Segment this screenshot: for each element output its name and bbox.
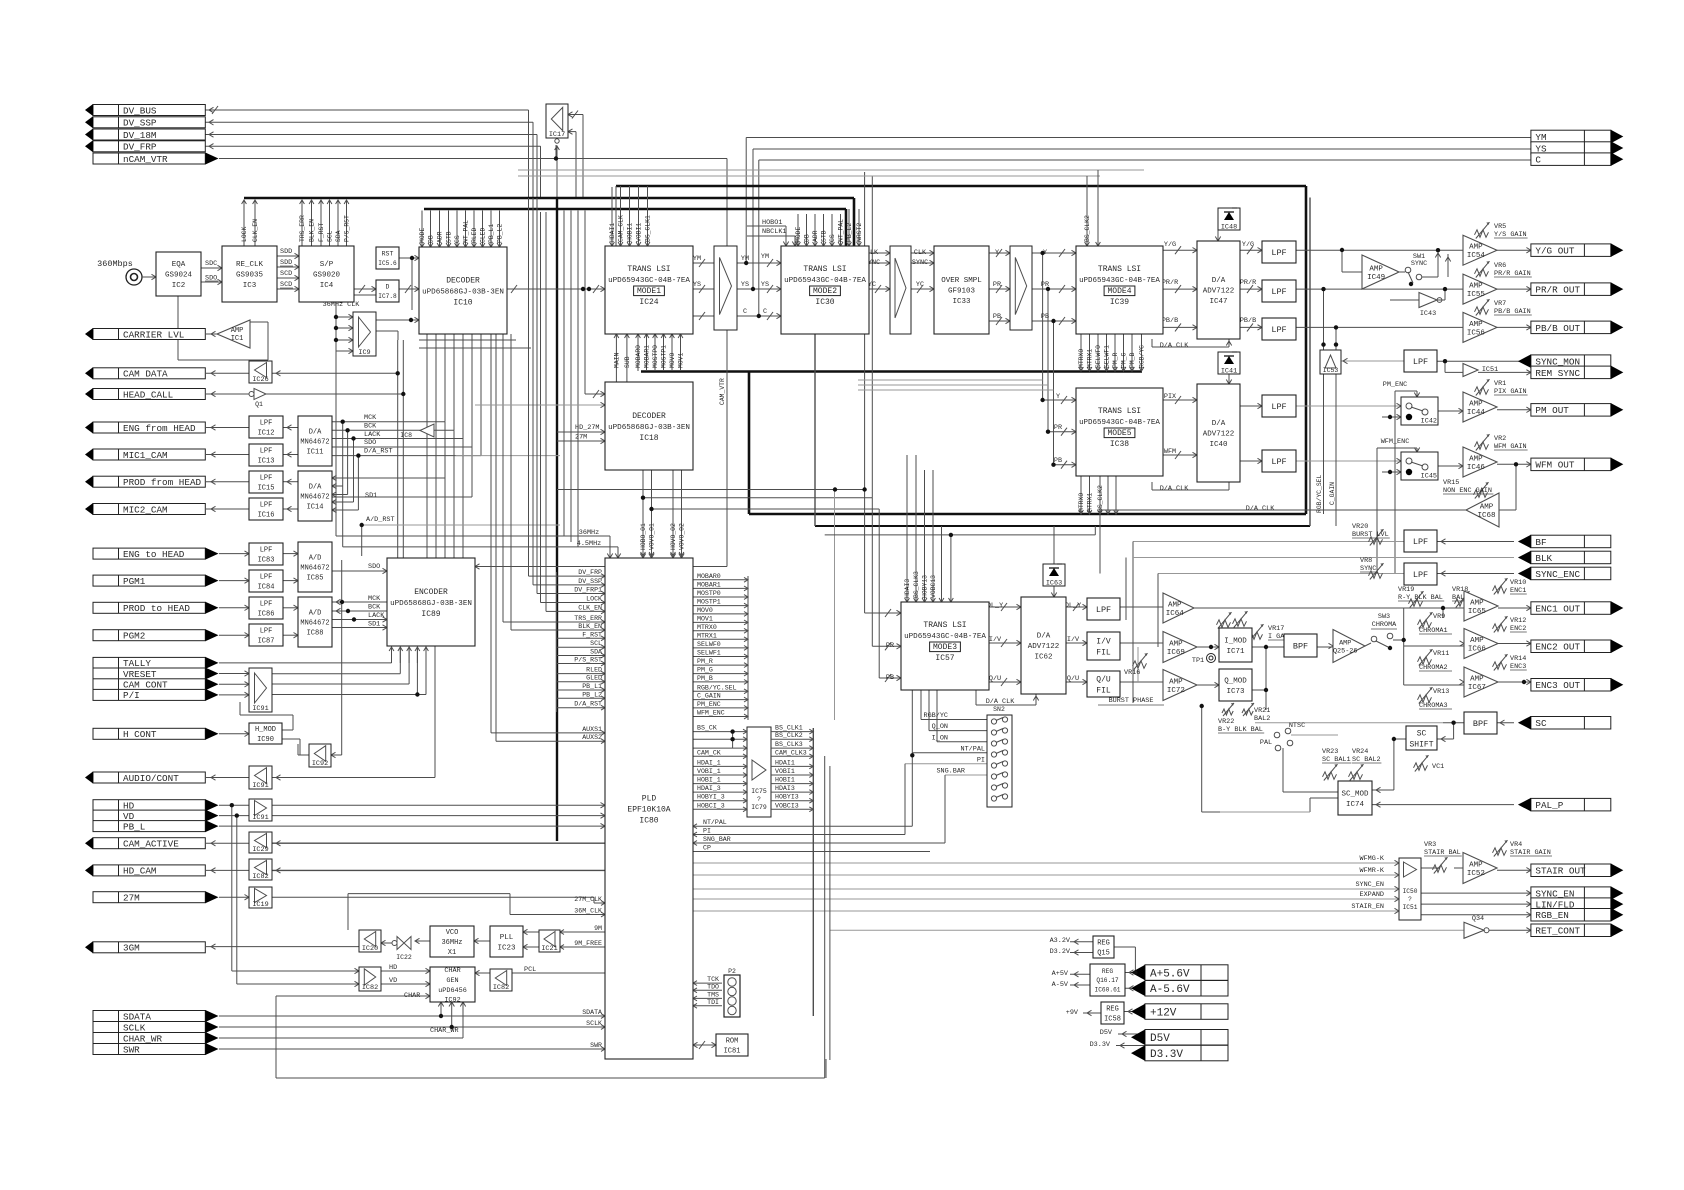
wire (864, 172, 866, 613)
junction (1451, 721, 1455, 725)
wire (651, 470, 653, 558)
svg-text:SYNC: SYNC (912, 259, 928, 267)
wire (451, 1002, 453, 1027)
node 3GM (85, 941, 205, 953)
svg-text:SDA: SDA (590, 649, 602, 656)
wire (536, 135, 538, 199)
svg-text:IC47: IC47 (1209, 298, 1227, 306)
svg-text:MN64672: MN64672 (300, 493, 329, 501)
svg-text:IC4: IC4 (320, 282, 334, 290)
wire (1497, 463, 1531, 465)
svg-text:IC67: IC67 (1468, 684, 1486, 692)
asyncenc (1441, 571, 1446, 576)
svg-text:HDAI_1: HDAI_1 (697, 759, 721, 766)
IC91 buffer hdvd (249, 799, 272, 822)
svg-text:WFM_ENC: WFM_ENC (697, 710, 725, 717)
node DV_SSP (85, 116, 205, 128)
wire (1309, 198, 1311, 527)
wire (1372, 789, 1394, 791)
svg-text:A+5.6V: A+5.6V (1150, 968, 1190, 980)
svg-text:MOV0: MOV0 (669, 352, 676, 368)
junction (345, 428, 349, 432)
wire (453, 334, 455, 430)
wire (206, 869, 249, 871)
svg-text:A-5V: A-5V (1052, 981, 1069, 989)
junction (450, 1025, 454, 1029)
PLD AUXS2 pin (496, 734, 605, 743)
svg-text:REG: REG (1097, 940, 1110, 948)
svg-text:CAM_CLK: CAM_CLK (618, 215, 625, 242)
svg-text:TDI: TDI (707, 999, 719, 1006)
wire (361, 525, 363, 556)
svg-text:BLK_EN: BLK_EN (309, 219, 316, 242)
wire (1163, 326, 1197, 328)
svg-text:SDA: SDA (335, 230, 342, 242)
svg-text:HDAI_3: HDAI_3 (697, 785, 721, 792)
svg-text:PROD from HEAD: PROD from HEAD (123, 477, 202, 488)
junction (833, 487, 837, 491)
a30a (875, 250, 890, 293)
svg-text:IC66: IC66 (1468, 645, 1487, 653)
wire (1120, 681, 1163, 683)
node ENC2 OUT (1531, 640, 1623, 654)
PLD to IC75 pins (693, 725, 747, 812)
IC73 Q_MOD (1219, 669, 1252, 701)
wire (507, 288, 605, 290)
wire (342, 422, 344, 486)
svg-text:IC41: IC41 (1221, 368, 1237, 376)
wire (219, 1015, 605, 1017)
CAM_VTR label (719, 340, 727, 567)
svg-text:Q16.17: Q16.17 (1096, 977, 1119, 984)
RE_CLK top pins (241, 200, 259, 246)
IC45 switch (1401, 452, 1438, 481)
svg-text:IC81: IC81 (724, 1048, 741, 1056)
RGB YC SEL vertical labels (1316, 474, 1336, 513)
a62a (1073, 603, 1087, 611)
junction (396, 371, 400, 375)
svg-text:LOCK: LOCK (241, 226, 248, 242)
IC72 amp (1163, 670, 1197, 701)
svg-text:NT/PAL: NT/PAL (961, 745, 985, 753)
svg-text:IC45: IC45 (1421, 473, 1437, 481)
IC21 buffer (539, 930, 560, 953)
ar607.8 (245, 605, 250, 610)
wire (568, 114, 583, 116)
svg-text:TCK: TCK (707, 976, 719, 983)
wire (1498, 643, 1531, 645)
a30b (917, 250, 934, 293)
aenc3 (1526, 679, 1531, 684)
a47289.1 (1247, 285, 1262, 293)
svg-text:IC10: IC10 (453, 298, 472, 307)
svg-text:MODE2: MODE2 (813, 287, 837, 296)
svg-text:SCLK: SCLK (586, 1020, 602, 1027)
wire (747, 225, 786, 227)
svg-text:GEN: GEN (446, 977, 458, 985)
svg-text:ADV7122: ADV7122 (1203, 288, 1235, 296)
svg-text:H CONT: H CONT (123, 729, 157, 740)
IC10 DECODER (419, 247, 507, 334)
wire (206, 481, 249, 483)
node ENG from HEAD (85, 422, 205, 434)
wire (1097, 170, 1099, 187)
wire (1377, 447, 1417, 449)
svg-text:IC38: IC38 (1110, 440, 1129, 449)
wire (219, 1037, 463, 1039)
svg-text:IC5.6: IC5.6 (378, 260, 397, 267)
wire (904, 764, 906, 835)
wire (425, 647, 427, 695)
arr2427.5 (287, 425, 292, 430)
svg-text:LPF: LPF (1413, 537, 1428, 547)
svg-text:DB: DB (428, 235, 435, 243)
svg-text:DB: DB (804, 234, 811, 242)
wire (555, 145, 557, 159)
areg7 (1087, 1010, 1092, 1015)
wire (331, 754, 342, 756)
ic48a (1215, 237, 1220, 242)
junction (235, 813, 239, 817)
IC38 bottom pins (1078, 476, 1118, 514)
collector bus right of IC75 (813, 728, 830, 1078)
IC43 buffer (1419, 293, 1437, 319)
a47250.2 (1247, 246, 1262, 254)
junction (351, 436, 355, 440)
wire (1066, 681, 1087, 683)
junction (334, 326, 338, 330)
svg-text:HOBYI3: HOBYI3 (775, 794, 799, 801)
svg-text:C_GAIN: C_GAIN (697, 693, 721, 700)
wire (272, 815, 605, 817)
junction (340, 600, 344, 604)
node A+5.6V (1131, 965, 1228, 981)
svg-text:NT/PAL: NT/PAL (703, 819, 727, 826)
wire (869, 288, 890, 290)
wire (545, 212, 547, 611)
wire (540, 146, 542, 198)
wire (1395, 390, 1417, 392)
abf (1441, 539, 1446, 544)
junction (356, 453, 360, 457)
node PM OUT (1531, 403, 1623, 417)
wire (283, 508, 298, 510)
wire (1497, 722, 1514, 724)
wire (1443, 722, 1464, 724)
svg-text:MOSTP1: MOSTP1 (697, 599, 721, 606)
svg-text:IC69: IC69 (1167, 649, 1185, 657)
IC12 LPF (249, 416, 283, 438)
junction (1334, 342, 1338, 346)
node PB/B OUT (1531, 321, 1623, 335)
a40o (1258, 403, 1263, 408)
areg5 (1129, 970, 1134, 975)
svg-text:IC18: IC18 (639, 434, 658, 443)
svg-text:GLED: GLED (480, 227, 487, 243)
a57a (1001, 603, 1021, 611)
svg-text:D5V: D5V (1150, 1033, 1170, 1045)
svg-text:IC12: IC12 (258, 429, 275, 437)
svg-text:IC86: IC86 (258, 611, 275, 619)
ascm (1376, 787, 1381, 792)
junction (1133, 970, 1137, 974)
wire (1296, 288, 1463, 290)
svg-text:DV_18M: DV_18M (123, 130, 156, 141)
wire (1416, 391, 1418, 397)
node MIC1_CAM (85, 449, 205, 461)
IC82 buffer pcl (490, 969, 512, 992)
svg-text:AMP: AMP (1169, 640, 1183, 648)
svg-text:WFM: WFM (1164, 448, 1176, 456)
wire (748, 372, 751, 514)
wire (232, 970, 359, 972)
svg-text:PROD to HEAD: PROD to HEAD (123, 603, 190, 614)
LPF sync enc (1404, 563, 1437, 585)
ar2553.6 (294, 551, 299, 556)
svg-text:IC2: IC2 (172, 282, 186, 290)
svg-text:A/D_RST: A/D_RST (366, 516, 395, 524)
wire (332, 509, 358, 511)
svg-text:IC54: IC54 (1467, 252, 1486, 260)
wire (444, 422, 446, 602)
svg-text:Y/G: Y/G (1164, 241, 1176, 249)
IC85 A/D (298, 542, 332, 592)
svg-text:LPF: LPF (260, 419, 273, 427)
wire (1265, 647, 1267, 710)
svg-text:PLL: PLL (500, 934, 514, 942)
wire (1437, 541, 1514, 543)
IC88 A/D (298, 597, 332, 647)
VR23 SC BAL1 (1322, 748, 1351, 781)
node CAM_ACTIVE (85, 837, 205, 849)
wire (929, 730, 987, 732)
wire (911, 262, 934, 264)
CHROMA1 label (1419, 627, 1452, 635)
alin (1526, 901, 1531, 906)
label underlines (205, 266, 293, 288)
svg-text:IC46: IC46 (1467, 464, 1486, 472)
wire (921, 719, 987, 721)
IC8 buffer (400, 424, 434, 439)
node P/I (93, 689, 219, 701)
wire (556, 146, 558, 198)
wire (424, 208, 846, 211)
small labels (205, 219, 1409, 1049)
svg-text:IC49: IC49 (1367, 274, 1385, 282)
wire (523, 946, 539, 948)
svg-text:uPD6456: uPD6456 (438, 987, 467, 995)
wire (834, 490, 836, 721)
svg-text:VD: VD (389, 977, 397, 985)
wire (1438, 410, 1463, 412)
wire (1197, 646, 1219, 648)
svg-text:D/A: D/A (1037, 633, 1051, 641)
svg-text:D/A: D/A (1212, 277, 1226, 285)
wire (250, 321, 268, 323)
wire (746, 137, 1531, 139)
node SDATA (93, 1010, 219, 1022)
node H CONT (93, 728, 219, 740)
wire (753, 148, 1531, 150)
CHROMA3 label (1419, 702, 1452, 710)
node A-5.6V (1131, 981, 1228, 997)
svg-text:LPF: LPF (1271, 287, 1286, 297)
wire (629, 186, 631, 187)
wire (752, 149, 754, 289)
svg-text:uPD65868GJ-03B-3EN: uPD65868GJ-03B-3EN (390, 600, 472, 608)
svg-text:IC40: IC40 (1209, 441, 1228, 449)
wire (332, 421, 445, 423)
wire (845, 209, 848, 246)
junction (1321, 342, 1325, 346)
wire (1053, 321, 1055, 465)
svg-text:NRST2: NRST2 (856, 223, 863, 242)
svg-text:LOCK: LOCK (586, 596, 602, 603)
wire (219, 673, 249, 675)
VR18 BAL1 (1452, 586, 1470, 608)
wire (1252, 689, 1266, 691)
svg-text:PB/B OUT: PB/B OUT (1535, 323, 1580, 334)
wire (1296, 326, 1463, 328)
svg-text:YS: YS (761, 281, 769, 289)
svg-text:HD_27M: HD_27M (575, 424, 599, 432)
svg-text:P/S_RST: P/S_RST (574, 657, 602, 664)
wire (381, 970, 430, 972)
svg-text:IC7.8: IC7.8 (378, 293, 397, 300)
svg-text:IC90: IC90 (257, 736, 274, 744)
svg-text:SWR: SWR (123, 1044, 140, 1055)
a38 (1061, 396, 1076, 469)
junction (1040, 251, 1044, 255)
wire (1137, 647, 1139, 682)
aca2 (276, 841, 281, 846)
wire (749, 513, 1306, 516)
svg-text:IC82: IC82 (493, 984, 509, 992)
node +12V (1131, 1004, 1228, 1020)
wire (283, 553, 298, 555)
svg-text:GS9020: GS9020 (313, 272, 341, 280)
junction (1388, 470, 1392, 474)
svg-text:IC14: IC14 (307, 503, 324, 511)
node HD (93, 799, 219, 811)
svg-text:?: ? (757, 796, 761, 803)
svg-text:CLK: CLK (914, 249, 927, 257)
svg-text:A3.2V: A3.2V (1050, 937, 1071, 945)
IC34-IC37 buffers (1010, 246, 1032, 330)
IC24 top pins (609, 187, 652, 246)
svg-text:D3.3V: D3.3V (1090, 1041, 1111, 1049)
svg-text:PM OUT: PM OUT (1535, 405, 1569, 416)
svg-text:LPF: LPF (1271, 248, 1286, 258)
svg-text:IC52: IC52 (1467, 870, 1485, 878)
svg-text:NBCLK1: NBCLK1 (762, 228, 786, 236)
svg-text:BLK: BLK (1535, 553, 1552, 564)
wire (759, 159, 1531, 161)
ar635.2 (245, 633, 250, 638)
svg-text:CP: CP (703, 845, 711, 852)
a37 (1059, 249, 1076, 325)
VR24 SC BAL2 (1349, 748, 1382, 781)
wire (869, 252, 890, 254)
IC62 D/A (1021, 597, 1066, 694)
svg-text:A/D: A/D (309, 555, 322, 563)
svg-text:VR4: VR4 (1510, 841, 1522, 849)
wire (283, 607, 298, 609)
wire (1070, 973, 1090, 975)
node PROD to HEAD (93, 602, 219, 614)
svg-text:HOBI1: HOBI1 (627, 223, 634, 242)
svg-text:SC: SC (1535, 718, 1547, 729)
svg-text:9M: 9M (594, 925, 602, 932)
a6 (415, 255, 420, 260)
svg-text:IC26: IC26 (252, 376, 268, 384)
wire (1453, 723, 1455, 739)
svg-text:RLED: RLED (471, 227, 478, 243)
wire (1197, 684, 1219, 686)
wire (1240, 326, 1262, 328)
svg-text:IC22: IC22 (396, 954, 412, 961)
wire (471, 334, 473, 447)
svg-text:IC42: IC42 (1421, 418, 1437, 426)
wire (444, 334, 446, 422)
VR4 STAIR GAIN (1493, 840, 1553, 857)
svg-text:LPF: LPF (260, 628, 273, 636)
apll2 (523, 944, 528, 949)
svg-text:IC74: IC74 (1346, 801, 1365, 809)
wire (620, 186, 622, 187)
svg-text:ENC3 OUT: ENC3 OUT (1535, 680, 1580, 691)
svg-text:TP1: TP1 (1192, 657, 1204, 665)
a33 (996, 249, 1010, 325)
IC31-IC32 label (892, 300, 908, 323)
abpf (1329, 643, 1334, 648)
junction (1340, 248, 1344, 252)
svg-text:D/A CLK: D/A CLK (1160, 485, 1189, 493)
a9 (276, 371, 281, 376)
asw1 (1397, 403, 1402, 408)
wire (512, 972, 605, 974)
svg-text:HOBI1: HOBI1 (775, 777, 795, 784)
svg-text:MTRX0: MTRX0 (697, 624, 717, 631)
wire (936, 690, 938, 742)
wire (878, 509, 880, 678)
wire (1042, 253, 1044, 400)
wire (283, 427, 298, 429)
sw1 up arrows (1435, 253, 1450, 262)
node HEAD_CALL (85, 388, 205, 400)
wire (1442, 608, 1444, 618)
VR3 STAIR BAL (1424, 841, 1462, 874)
svg-text:HDAI3: HDAI3 (775, 785, 795, 792)
svg-text:CHAR: CHAR (444, 967, 460, 975)
svg-text:YM: YM (761, 253, 769, 261)
svg-text:ENG from HEAD: ENG from HEAD (123, 423, 196, 434)
arr509 (211, 506, 216, 511)
wire (858, 379, 1043, 381)
wire (335, 351, 337, 536)
VR9 CHROMA1 (1418, 612, 1446, 628)
wire (879, 677, 901, 679)
svg-text:SDD: SDD (280, 248, 292, 256)
IC68 amp (1466, 493, 1499, 527)
svg-text:MODE5: MODE5 (1107, 429, 1131, 438)
svg-text:IC82: IC82 (252, 873, 268, 881)
svg-text:IC85: IC85 (307, 575, 324, 583)
svg-text:RST: RST (382, 251, 394, 258)
svg-text:NT_PAL: NT_PAL (838, 219, 845, 242)
ascs (1441, 736, 1446, 741)
wire (1421, 914, 1531, 916)
